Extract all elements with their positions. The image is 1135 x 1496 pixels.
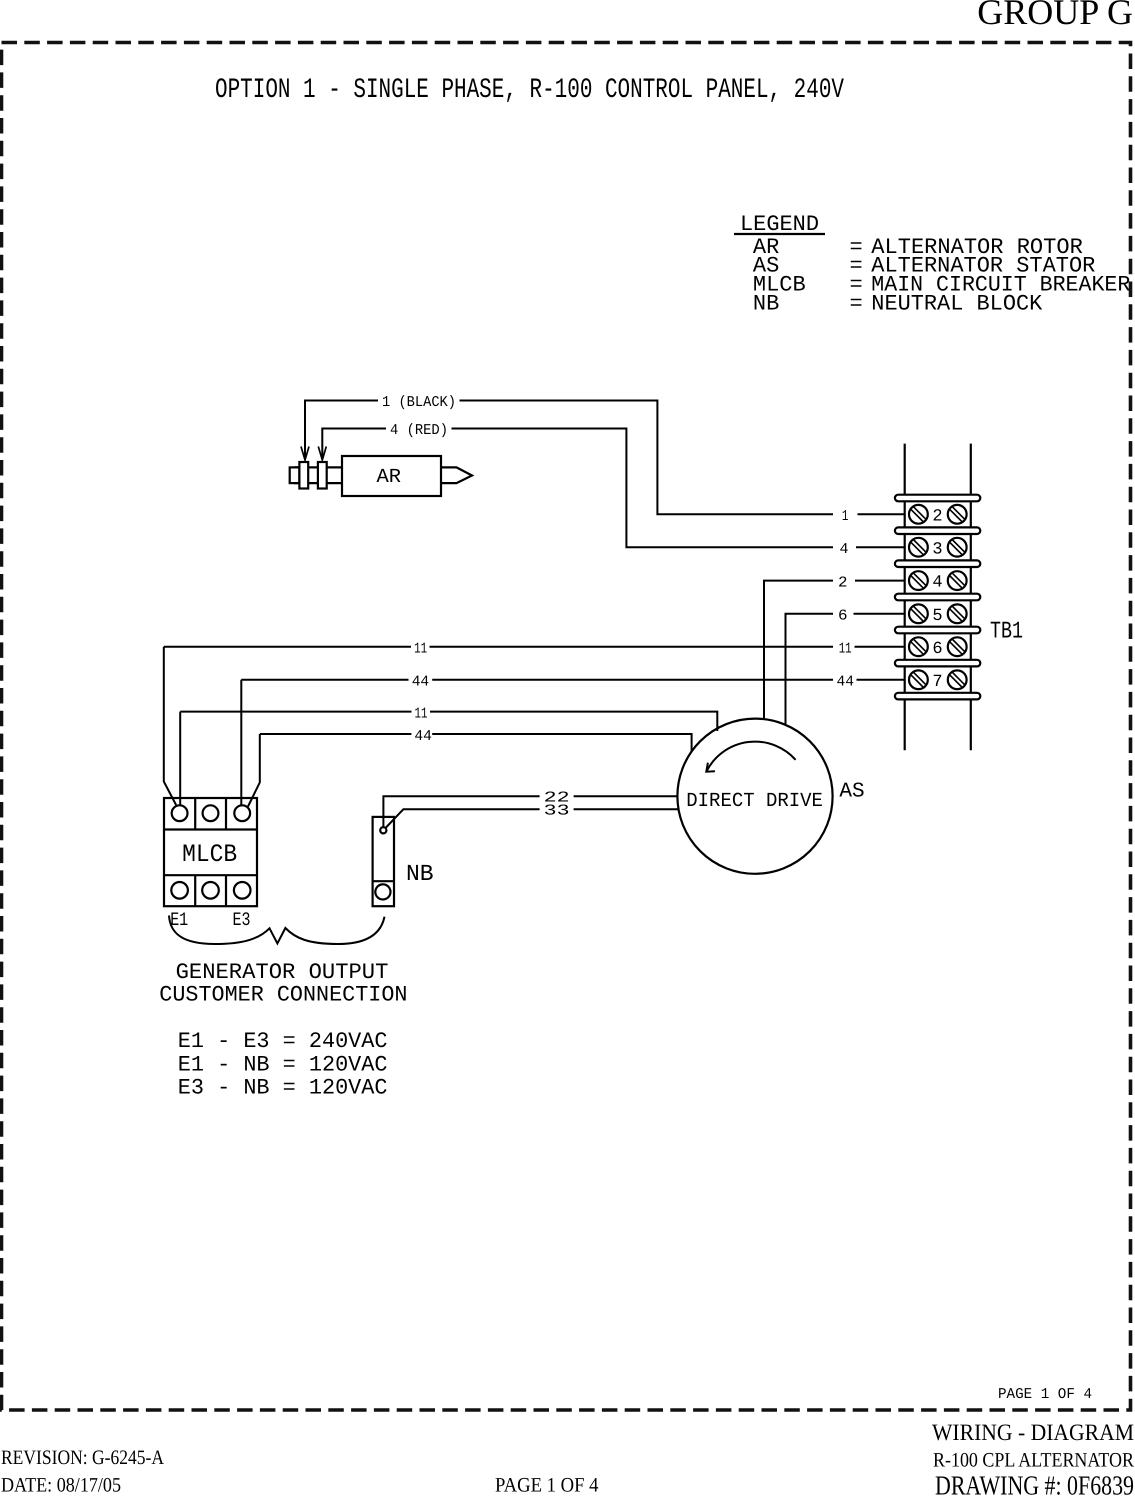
svg-text:AR: AR xyxy=(377,466,402,489)
svg-text:1 (BLACK): 1 (BLACK) xyxy=(382,394,456,411)
svg-text:DATE: 08/17/05: DATE: 08/17/05 xyxy=(1,1475,121,1496)
svg-text:7: 7 xyxy=(932,673,942,692)
svg-text:R-100 CPL ALTERNATOR: R-100 CPL ALTERNATOR xyxy=(933,1450,1134,1472)
svg-text:5: 5 xyxy=(932,607,942,626)
svg-text:11: 11 xyxy=(414,641,427,658)
svg-text:4 (RED): 4 (RED) xyxy=(390,422,448,439)
svg-text:DIRECT DRIVE: DIRECT DRIVE xyxy=(686,790,823,813)
svg-text:CUSTOMER CONNECTION: CUSTOMER CONNECTION xyxy=(159,982,407,1007)
svg-text:44: 44 xyxy=(412,673,430,690)
svg-text:AS: AS xyxy=(839,781,864,804)
svg-text:NB: NB xyxy=(753,292,779,317)
svg-text:11: 11 xyxy=(415,705,428,722)
svg-text:NB: NB xyxy=(406,861,434,887)
svg-text:=: = xyxy=(850,292,863,317)
svg-text:MLCB: MLCB xyxy=(182,840,237,869)
svg-text:TB1: TB1 xyxy=(990,618,1023,645)
svg-text:GENERATOR OUTPUT: GENERATOR OUTPUT xyxy=(176,960,389,985)
svg-text:44: 44 xyxy=(837,673,855,690)
svg-text:44: 44 xyxy=(414,728,432,745)
svg-text:NEUTRAL BLOCK: NEUTRAL BLOCK xyxy=(871,292,1043,317)
svg-text:E1 - NB = 120VAC: E1 - NB = 120VAC xyxy=(178,1052,388,1077)
svg-text:GROUP G: GROUP G xyxy=(977,0,1133,32)
svg-text:4: 4 xyxy=(840,541,849,558)
svg-text:OPTION 1 - SINGLE PHASE, R-100: OPTION 1 - SINGLE PHASE, R-100 CONTROL P… xyxy=(215,75,844,106)
svg-text:6: 6 xyxy=(932,640,942,659)
svg-text:3: 3 xyxy=(932,540,942,559)
svg-text:6: 6 xyxy=(838,608,848,625)
svg-text:E3 - NB = 120VAC: E3 - NB = 120VAC xyxy=(178,1075,388,1100)
svg-text:PAGE 1 OF 4: PAGE 1 OF 4 xyxy=(998,1386,1092,1403)
svg-text:REVISION: G-6245-A: REVISION: G-6245-A xyxy=(1,1447,164,1469)
svg-text:E1 - E3 = 240VAC: E1 - E3 = 240VAC xyxy=(178,1029,388,1054)
svg-text:33: 33 xyxy=(544,803,570,820)
svg-text:4: 4 xyxy=(932,574,942,593)
svg-text:PAGE 1 OF 4: PAGE 1 OF 4 xyxy=(495,1475,599,1496)
svg-text:2: 2 xyxy=(932,507,942,526)
svg-text:11: 11 xyxy=(839,641,852,658)
svg-text:E3: E3 xyxy=(233,909,251,931)
svg-text:2: 2 xyxy=(838,574,848,591)
svg-text:1: 1 xyxy=(842,508,849,525)
svg-text:DRAWING #: 0F6839: DRAWING #: 0F6839 xyxy=(935,1470,1134,1496)
svg-text:WIRING - DIAGRAM: WIRING - DIAGRAM xyxy=(932,1420,1134,1446)
